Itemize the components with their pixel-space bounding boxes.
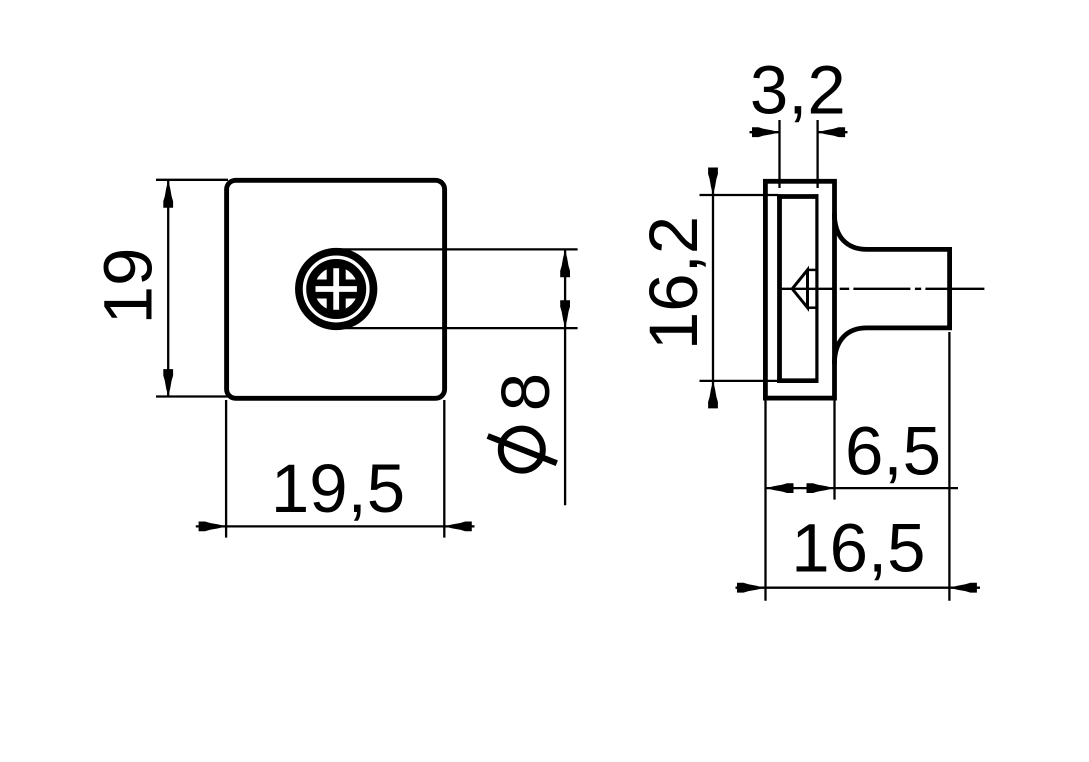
dim 6,5 dimension line — [766, 487, 959, 489]
screw head outer circle — [299, 252, 374, 327]
dim 6,5 arrow left (inside pointing left) — [766, 483, 794, 493]
dim 3,2 dimension line right segment — [818, 131, 848, 133]
dim 16,5 right extension line — [948, 332, 950, 601]
dim diameter 8 arrow down — [560, 300, 570, 328]
side view: recess inner rectangle left edge — [777, 194, 782, 383]
center line (dash-dot) — [782, 288, 985, 290]
dim 3,2 arrow right (outside pointing left) — [818, 127, 846, 137]
screw inner circle — [310, 263, 362, 315]
dim 3,2 right extension line — [816, 120, 818, 188]
dim 19 dimension line — [167, 180, 169, 397]
screw phillips cross recess — [312, 265, 360, 313]
dim 19,5 left extension line — [225, 400, 227, 538]
dim diameter 8 label: diameter symbol slash — [488, 436, 557, 463]
knob stem flare and cylinder outline — [834, 214, 949, 365]
svg-text:16,2: 16,2 — [635, 216, 712, 350]
dim diameter 8 bottom extension line — [340, 327, 578, 329]
side view: recess inner rectangle bottom edge — [777, 378, 818, 383]
side view: flange plate outer rectangle — [765, 181, 834, 398]
dim 6,5 arrow right (inside pointing right) — [807, 483, 835, 493]
svg-text:8: 8 — [487, 373, 564, 411]
dim 16,5 dimension line — [736, 587, 981, 589]
dim 19 arrow down — [163, 369, 173, 397]
svg-text:16,5: 16,5 — [791, 510, 925, 587]
dim 19 arrow up — [163, 180, 173, 208]
dim 16,2 top extension line — [700, 194, 779, 196]
dim 19,5 arrow right (outside pointing left) — [444, 522, 472, 532]
countersink hole bottom edge — [808, 306, 818, 309]
svg-text:6,5: 6,5 — [845, 413, 941, 490]
dim diameter 8 top extension line — [340, 248, 578, 250]
dim 16,2 arrow bottom (outside pointing up) — [708, 381, 718, 409]
dim 19,5 dimension line — [196, 525, 475, 527]
dim 6,5 left extension line (shared with 16,5) — [764, 400, 766, 601]
dim 16,2 dimension line — [712, 170, 714, 403]
side view: recess inner rectangle top edge — [777, 194, 818, 199]
svg-text:19: 19 — [90, 248, 167, 325]
dim diameter 8 label: diameter symbol circle — [501, 429, 543, 471]
svg-text:3,2: 3,2 — [750, 52, 846, 129]
dim 19,5 arrow left (outside pointing right) — [199, 522, 227, 532]
dim 16,2 arrow top (outside pointing down) — [708, 168, 718, 196]
dim 3,2 dimension line left segment — [750, 131, 780, 133]
dim 16,2 bottom extension line — [700, 380, 779, 382]
dim 19 top extension line — [156, 179, 228, 181]
svg-text:19,5: 19,5 — [271, 450, 405, 527]
dim diameter 8 dimension line — [564, 249, 566, 505]
dim 6,5 right extension line — [833, 400, 835, 500]
dim 19 bottom extension line — [156, 395, 228, 397]
countersink hole top edge — [808, 269, 818, 272]
countersink cone triangle — [792, 270, 807, 308]
front view: rounded square knob face — [227, 180, 445, 398]
dim diameter 8 arrow up — [560, 250, 570, 277]
side view: recess inner rectangle right edge — [815, 194, 818, 383]
dim 16,5 arrow left (outside pointing right) — [737, 583, 765, 593]
dim 3,2 left extension line — [778, 120, 780, 188]
dim 3,2 arrow left (outside pointing right) — [752, 127, 780, 137]
dim 19,5 right extension line — [443, 400, 445, 538]
dim 16,5 arrow right (outside pointing left) — [949, 583, 977, 593]
